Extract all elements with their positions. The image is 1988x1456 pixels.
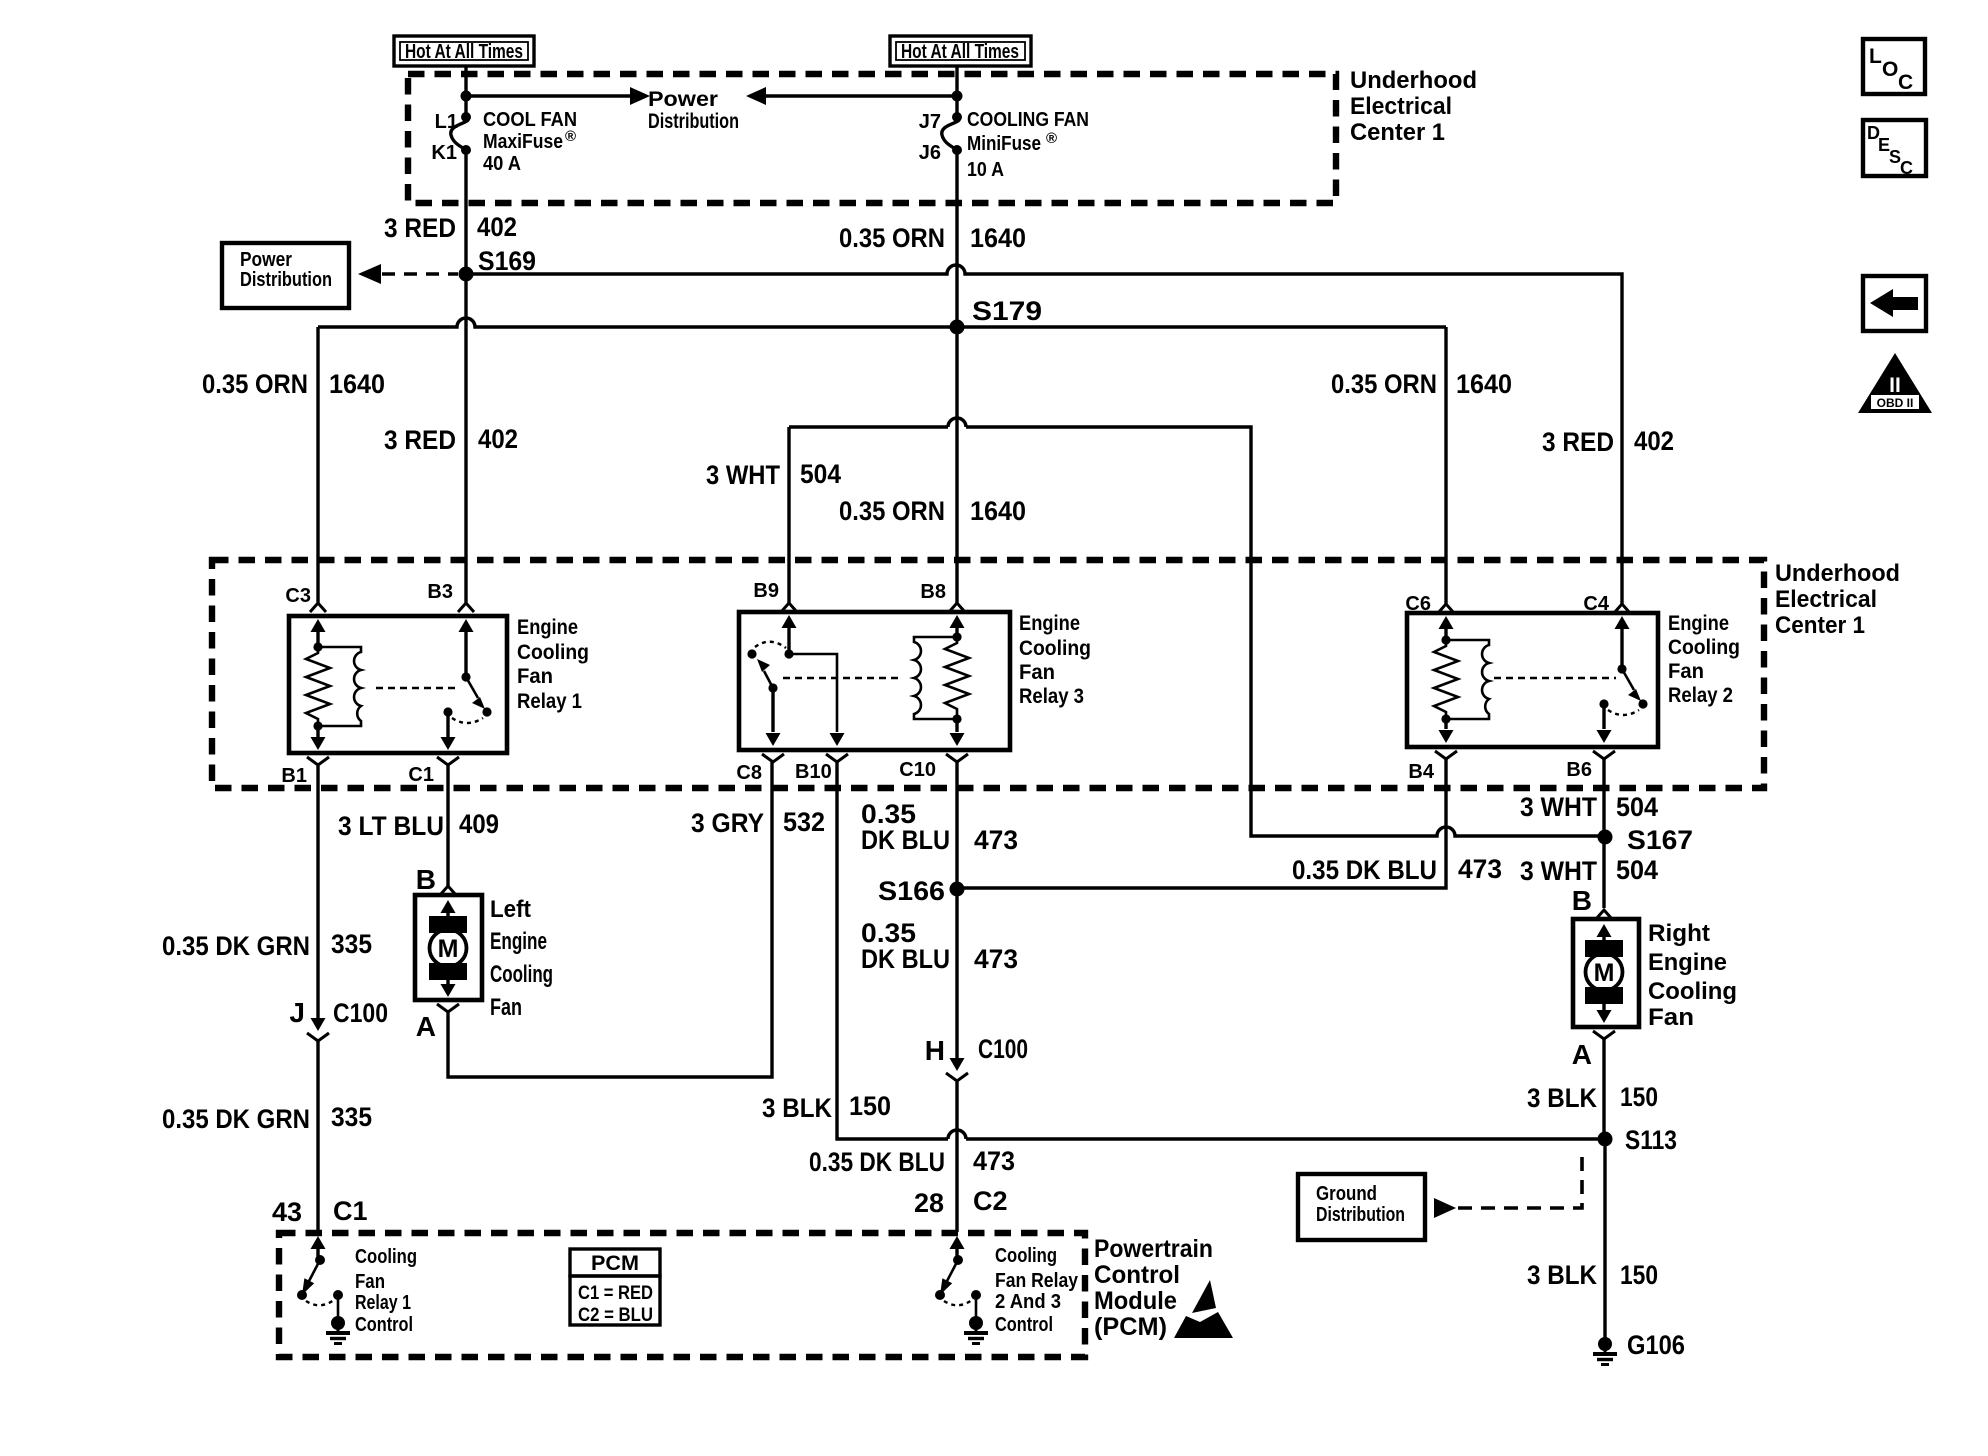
svg-text:Ground: Ground <box>1316 1183 1377 1205</box>
svg-text:K1: K1 <box>431 142 457 164</box>
svg-text:S166: S166 <box>878 876 945 906</box>
label: L1 / K1 <box>431 111 458 164</box>
Hot At All Times box 1 <box>394 36 534 66</box>
svg-text:Cooling: Cooling <box>490 961 553 988</box>
svg-text:473: 473 <box>974 825 1018 855</box>
svg-text:Control: Control <box>355 1314 413 1336</box>
label: 0.35 ORN 1640 (center) <box>839 496 1026 526</box>
left fan motor connector B <box>440 886 456 895</box>
back arrow box <box>1863 276 1926 331</box>
svg-text:®: ® <box>565 128 576 145</box>
svg-text:28: 28 <box>914 1188 944 1218</box>
svg-text:473: 473 <box>973 1146 1015 1176</box>
svg-text:J6: J6 <box>919 142 941 164</box>
svg-text:Cooling: Cooling <box>1668 636 1740 659</box>
label: Left Engine Cooling Fan <box>490 896 553 1021</box>
relay2 switch out arrow <box>1597 704 1612 743</box>
label: terminal B (right fan) <box>1572 885 1592 916</box>
PCM relay1 ground contact <box>333 1290 343 1317</box>
relay3 resistor <box>945 637 969 719</box>
svg-text:Control: Control <box>995 1314 1053 1336</box>
Powertrain Control Module dashed box <box>279 1233 1085 1357</box>
label: COOLING FAN MiniFuse 10 A <box>967 109 1089 181</box>
relay3 coil out arrow <box>950 719 965 746</box>
wire: dashed arrow Ground Distribution to S113 <box>1434 1152 1582 1218</box>
wire: 3 WHT 504 relay2 B6 to S167 to right fan B <box>1602 759 1605 908</box>
svg-text:3 GRY: 3 GRY <box>691 808 764 838</box>
wire: 0.35 DK GRN 335 C100 to PCM pin 43 <box>316 1041 319 1232</box>
relay2 resistor <box>1434 640 1458 719</box>
pin B8 connector <box>920 581 965 612</box>
svg-text:Cooling: Cooling <box>1648 978 1737 1005</box>
splice S166 <box>878 876 965 906</box>
svg-text:C6: C6 <box>1405 593 1431 615</box>
svg-text:C100: C100 <box>978 1034 1028 1064</box>
PCM relay1 driver contact <box>297 1290 307 1300</box>
svg-text:S113: S113 <box>1625 1125 1677 1155</box>
svg-text:S179: S179 <box>972 296 1042 326</box>
relay1 switch pin arrow <box>459 619 474 677</box>
svg-text:150: 150 <box>1620 1260 1658 1290</box>
pin B1 connector <box>281 757 329 787</box>
relay3 coil <box>914 637 957 719</box>
Underhood Electrical Center 1 dashed box (top) <box>408 74 1336 203</box>
svg-text:3 BLK: 3 BLK <box>762 1093 832 1123</box>
relay3 switch arm <box>757 659 778 693</box>
svg-text:532: 532 <box>783 807 825 837</box>
relay1 coil bottom node <box>313 721 322 730</box>
PCM relay23 driver contact <box>935 1290 945 1300</box>
svg-text:Powertrain: Powertrain <box>1094 1235 1213 1263</box>
svg-text:Cooling: Cooling <box>355 1246 417 1268</box>
relay2 actuator dashed link <box>1494 677 1616 679</box>
relay2 switch pivot <box>1617 664 1626 673</box>
svg-text:0.35 DK GRN: 0.35 DK GRN <box>162 1104 310 1134</box>
svg-text:0.35 ORN: 0.35 ORN <box>839 496 945 526</box>
pin C3 connector <box>285 585 326 612</box>
svg-text:473: 473 <box>974 944 1018 974</box>
svg-text:Hot At All Times: Hot At All Times <box>901 41 1019 63</box>
svg-text:B: B <box>416 864 436 895</box>
svg-text:1640: 1640 <box>329 369 385 399</box>
splice S113 <box>1598 1125 1678 1155</box>
svg-text:Underhood: Underhood <box>1350 67 1477 94</box>
label: Engine Cooling Fan Relay 3 <box>1019 612 1091 708</box>
wire: power distribution arrow right <box>466 87 650 105</box>
wire: S179 horizontal to relay1 C3 and relay2 C6 <box>318 318 1446 604</box>
relay3 B9 pin arrow <box>782 615 797 654</box>
label: pin 43 connector C1 <box>272 1196 368 1227</box>
svg-text:Underhood: Underhood <box>1775 560 1900 587</box>
svg-text:Engine: Engine <box>490 928 547 955</box>
svg-text:Left: Left <box>490 896 531 923</box>
svg-text:335: 335 <box>331 929 372 959</box>
label: 3 BLK 150 (ground leg) <box>1527 1260 1658 1290</box>
svg-text:B8: B8 <box>920 581 946 603</box>
relay2 coil pin arrow <box>1439 616 1454 640</box>
svg-text:402: 402 <box>1634 426 1674 456</box>
splice S169 <box>459 246 537 282</box>
svg-text:40 A: 40 A <box>483 153 521 175</box>
label: Right Engine Cooling Fan <box>1648 920 1737 1031</box>
wire: 3 RED 402 fuse1 to S169 to relay1 B3 <box>464 150 467 603</box>
relay1 resistor <box>306 647 330 726</box>
connector C100 pin J <box>289 997 388 1041</box>
svg-text:10 A: 10 A <box>967 159 1004 181</box>
wire: 3 BLK 150 relay3 B10 to S113 <box>837 762 1605 1139</box>
label: 0.35 DK BLU 473 (upper) <box>861 799 1018 855</box>
svg-text:C2 = BLU: C2 = BLU <box>578 1305 653 1326</box>
PCM relay1 travel arc <box>306 1300 334 1305</box>
label: 3 WHT 504 (above S167) <box>1520 792 1658 822</box>
PCM relay23 driver pivot <box>953 1255 963 1265</box>
svg-text:3 RED: 3 RED <box>384 213 456 243</box>
svg-text:Distribution: Distribution <box>648 110 739 133</box>
relay U1: Engine Cooling Fan Relay 1 <box>289 616 507 753</box>
relay3 B9 node <box>784 649 793 658</box>
pin B9 connector <box>753 580 797 612</box>
svg-text:1640: 1640 <box>970 496 1026 526</box>
svg-text:DK BLU: DK BLU <box>861 944 950 974</box>
label: 3 BLK 150 (right fan) <box>1527 1082 1658 1113</box>
PCM relay1 ground <box>326 1316 350 1344</box>
relay1 coil <box>318 647 361 726</box>
label: 0.35 DK BLU 473 (lower) <box>809 1146 1015 1177</box>
label: Cooling Fan Relay 2 And 3 Control <box>995 1245 1079 1336</box>
svg-text:1640: 1640 <box>1456 369 1512 399</box>
wire: 0.35 DK BLU 473 C100 to PCM pin 28 <box>955 1081 958 1232</box>
svg-text:B6: B6 <box>1566 759 1592 781</box>
relay2 coil <box>1446 640 1489 719</box>
label: Powertrain Control Module (PCM) <box>1094 1235 1213 1341</box>
label: 0.35 ORN 1640 (left) <box>202 369 385 399</box>
relay2 coil top node <box>1441 635 1450 644</box>
wire: S166 to relay2 B4 (0.35 DK BLU 473) <box>957 759 1446 888</box>
fuse F2: COOLING FAN MiniFuse 10A <box>942 112 962 155</box>
relay3 switch out arrow <box>766 688 781 746</box>
svg-text:C8: C8 <box>736 762 762 784</box>
PCM relay1 driver pivot <box>315 1255 325 1265</box>
ESD symbol <box>1174 1280 1233 1338</box>
svg-text:1640: 1640 <box>970 223 1026 253</box>
label: Cooling Fan Relay 1 Control <box>355 1246 417 1336</box>
right fan motor connector A <box>1572 1031 1615 1070</box>
svg-text:Right: Right <box>1648 920 1710 947</box>
relay2 switch arm <box>1622 669 1648 709</box>
relay1 coil out arrow <box>311 726 326 750</box>
wire: 3 LT BLU 409 relay1 C1 to left fan B <box>446 765 449 886</box>
svg-text:Cooling: Cooling <box>517 641 589 664</box>
svg-text:504: 504 <box>1616 792 1658 822</box>
wire: S169 to relay2 C4 (3 RED 402) <box>466 265 1622 604</box>
wire: power distribution arrow left (to fuse 2 node) <box>746 87 957 105</box>
PCM connector legend box <box>570 1249 660 1326</box>
svg-text:S169: S169 <box>478 246 536 276</box>
svg-text:3 WHT: 3 WHT <box>1520 792 1597 822</box>
OBD II symbol <box>1858 353 1932 413</box>
svg-text:O: O <box>1882 58 1898 81</box>
wire: 3 BLK 150 right fan A to S113 <box>1602 1039 1605 1139</box>
svg-text:0.35 ORN: 0.35 ORN <box>839 223 945 253</box>
label: Engine Cooling Fan Relay 1 <box>517 616 589 713</box>
svg-text:Distribution: Distribution <box>240 269 332 291</box>
svg-text:Fan: Fan <box>355 1271 385 1293</box>
svg-text:Control: Control <box>1094 1261 1180 1289</box>
svg-text:0.35 DK GRN: 0.35 DK GRN <box>162 931 310 961</box>
relay3 coil bottom node <box>952 714 961 723</box>
svg-text:B9: B9 <box>753 580 779 602</box>
svg-text:Fan: Fan <box>1019 661 1055 684</box>
node: power distribution tap 1 <box>461 91 472 102</box>
label: 3 WHT 504 (B9 drop) <box>706 459 841 490</box>
svg-text:0.35 DK BLU: 0.35 DK BLU <box>809 1147 945 1177</box>
Power Distribution box (left) <box>222 243 349 308</box>
relay1 switch out arrow <box>441 712 456 750</box>
label: terminal B (left fan) <box>416 864 436 895</box>
svg-text:Electrical: Electrical <box>1350 93 1452 120</box>
svg-text:C3: C3 <box>285 585 311 607</box>
pin B4 connector <box>1408 751 1457 783</box>
Ground Distribution box <box>1298 1174 1425 1240</box>
pin C8 connector <box>736 754 784 784</box>
svg-text:Cooling: Cooling <box>995 1245 1057 1267</box>
svg-text:L1: L1 <box>435 111 458 133</box>
pin B6 connector <box>1566 751 1615 781</box>
svg-text:Relay 1: Relay 1 <box>355 1292 411 1314</box>
PCM relay23 travel arc <box>944 1300 972 1305</box>
svg-text:Engine: Engine <box>1019 612 1080 635</box>
svg-text:Engine: Engine <box>1648 949 1727 976</box>
svg-text:409: 409 <box>459 809 499 839</box>
svg-text:J: J <box>289 997 305 1028</box>
right fan motor connector B <box>1596 910 1612 919</box>
svg-text:C: C <box>1900 158 1913 178</box>
svg-text:M: M <box>1594 959 1615 987</box>
PCM relay23 ground contact <box>971 1290 981 1317</box>
label: 3 RED 402 (left drop) <box>384 424 518 455</box>
svg-text:B3: B3 <box>427 581 453 603</box>
svg-text:A: A <box>416 1011 436 1042</box>
relay3 switch open contact <box>747 649 756 658</box>
svg-text:3 LT BLU: 3 LT BLU <box>338 811 444 841</box>
svg-text:Relay 3: Relay 3 <box>1019 685 1084 708</box>
relay2 contact travel arc <box>1608 710 1639 715</box>
wire: 0.35 ORN 1640 fuse2 down to relay3 B8 <box>955 150 958 603</box>
relay3 B8 pin arrow <box>950 615 965 637</box>
svg-text:B: B <box>1572 885 1592 916</box>
svg-text:473: 473 <box>1458 854 1502 884</box>
splice S179 <box>950 296 1043 335</box>
svg-text:504: 504 <box>800 459 841 489</box>
label: 3 BLK 150 (B10) <box>762 1091 891 1123</box>
relay1 switch arm <box>466 677 492 717</box>
relay3 actuator dashed link <box>783 677 900 679</box>
svg-text:G106: G106 <box>1627 1330 1685 1360</box>
svg-text:L: L <box>1869 45 1882 68</box>
DESC reference box <box>1863 120 1926 178</box>
svg-text:PCM: PCM <box>591 1252 639 1275</box>
wire: dashed arrow S169 to Power Distribution box <box>358 264 458 284</box>
label: 3 WHT 504 (below S167) <box>1520 855 1658 886</box>
left fan motor connector A <box>416 1004 459 1042</box>
svg-text:402: 402 <box>477 212 517 242</box>
svg-text:B4: B4 <box>1408 761 1434 783</box>
svg-text:C10: C10 <box>899 759 936 781</box>
svg-text:2 And 3: 2 And 3 <box>995 1291 1061 1313</box>
wire: fuse 2 feed from Hot At All Times <box>955 66 958 117</box>
label: Engine Cooling Fan Relay 2 <box>1668 612 1740 707</box>
relay2 switch fixed contact <box>1599 699 1608 708</box>
svg-text:Electrical: Electrical <box>1775 586 1877 613</box>
svg-text:Fan: Fan <box>1668 660 1704 683</box>
wire: left fan A to relay3 C8 (3 GRY 532) <box>448 762 772 1077</box>
label: Underhood Electrical Center 1 (middle) <box>1775 560 1900 639</box>
svg-text:Relay 2: Relay 2 <box>1668 684 1733 707</box>
pin C10 connector <box>899 754 968 781</box>
wire: 3 WHT 504 S167 riser to relay3 B9 <box>789 418 1605 836</box>
node: power distribution tap 2 <box>952 91 963 102</box>
wire: 0.35 DK GRN 335 relay1 B1 to PCM <box>311 765 326 1031</box>
svg-text:C4: C4 <box>1583 593 1609 615</box>
splice S167 <box>1598 825 1694 855</box>
relay2 coil out arrow <box>1439 719 1454 743</box>
svg-text:B10: B10 <box>795 761 832 783</box>
LOC reference box <box>1863 39 1925 94</box>
svg-text:C1: C1 <box>333 1196 368 1226</box>
svg-text:MaxiFuse: MaxiFuse <box>483 131 563 153</box>
label: 0.35 DK BLU 473 (below S166) <box>861 918 1018 974</box>
svg-text:150: 150 <box>849 1091 891 1121</box>
svg-text:43: 43 <box>272 1197 302 1227</box>
label: 3 GRY 532 <box>691 807 825 838</box>
svg-text:3 RED: 3 RED <box>1542 427 1614 457</box>
svg-text:Center 1: Center 1 <box>1350 119 1445 146</box>
svg-text:Fan: Fan <box>517 665 553 688</box>
motor M1: Left Engine Cooling Fan <box>415 895 482 1000</box>
relay2 switch pin arrow <box>1615 616 1630 669</box>
svg-text:Relay 1: Relay 1 <box>517 690 582 713</box>
relay1 coil top node <box>313 642 322 651</box>
svg-text:0.35 ORN: 0.35 ORN <box>1331 369 1437 399</box>
svg-text:0.35 ORN: 0.35 ORN <box>202 369 308 399</box>
svg-text:Engine: Engine <box>1668 612 1729 635</box>
label: 0.35 DK GRN 335 (upper) <box>162 929 372 961</box>
svg-text:504: 504 <box>1616 855 1658 885</box>
wire: fuse 1 feed from Hot At All Times <box>464 66 467 117</box>
pin C4 connector <box>1583 593 1630 615</box>
svg-text:Power: Power <box>648 88 718 111</box>
relay1 coil branch pin arrow <box>311 619 326 647</box>
svg-text:3 BLK: 3 BLK <box>1527 1260 1597 1290</box>
label: 0.35 DK GRN 335 (lower) <box>162 1102 372 1134</box>
svg-text:II: II <box>1889 374 1901 397</box>
svg-text:OBD II: OBD II <box>1877 396 1914 410</box>
relay1 contact travel arc <box>452 718 483 723</box>
PCM pin 28 entry arrow <box>950 1236 965 1260</box>
label: J7 / J6 <box>919 111 941 164</box>
svg-text:402: 402 <box>478 424 518 454</box>
label: Power Distribution (top) <box>648 88 739 133</box>
svg-text:J7: J7 <box>919 111 941 133</box>
svg-text:0.35 DK BLU: 0.35 DK BLU <box>1292 855 1437 885</box>
svg-text:Cooling: Cooling <box>1019 637 1091 660</box>
relay U2: Engine Cooling Fan Relay 2 <box>1407 613 1658 747</box>
svg-text:Distribution: Distribution <box>1316 1204 1405 1226</box>
wire: 3 BLK 150 S113 to G106 <box>1603 1139 1606 1338</box>
svg-text:C1 = RED: C1 = RED <box>578 1283 653 1304</box>
connector C100 pin H <box>925 1034 1028 1081</box>
svg-text:Fan: Fan <box>490 994 522 1021</box>
svg-text:COOL FAN: COOL FAN <box>483 109 577 131</box>
svg-text:Engine: Engine <box>517 616 578 639</box>
pin B3 connector <box>427 581 474 612</box>
label: 3 LT BLU 409 <box>338 809 499 841</box>
label: 0.35 DK BLU 473 (B4) <box>1292 854 1502 885</box>
PCM relay1 driver arm <box>302 1260 320 1295</box>
ground G106 <box>1593 1330 1685 1365</box>
label: 0.35 ORN 1640 (right) <box>1331 369 1512 399</box>
fuse F1: COOL FAN MaxiFuse 40A <box>451 112 471 155</box>
svg-text:M: M <box>438 935 459 963</box>
PCM relay23 driver arm <box>940 1260 958 1295</box>
label: COOL FAN MaxiFuse 40 A <box>483 109 577 175</box>
PCM relay23 ground <box>964 1316 988 1344</box>
relay3 coil top node <box>952 632 961 641</box>
Hot At All Times box 2 <box>890 36 1031 66</box>
relay2 coil bottom node <box>1441 714 1450 723</box>
svg-text:3 WHT: 3 WHT <box>1520 856 1597 886</box>
motor M2: Right Engine Cooling Fan <box>1573 919 1639 1027</box>
svg-text:COOLING FAN: COOLING FAN <box>967 109 1089 131</box>
svg-text:DK BLU: DK BLU <box>861 825 950 855</box>
label: pin 28 connector C2 <box>914 1186 1008 1218</box>
relay U3: Engine Cooling Fan Relay 3 <box>739 612 1010 750</box>
relay1 actuator dashed link <box>376 687 458 689</box>
Underhood Electrical Center 1 dashed box (middle) <box>212 560 1764 788</box>
label: 0.35 ORN 1640 (upper) <box>839 223 1026 253</box>
svg-text:3 RED: 3 RED <box>384 425 456 455</box>
svg-text:Fan Relay: Fan Relay <box>995 1270 1079 1292</box>
svg-text:MiniFuse: MiniFuse <box>967 133 1041 155</box>
relay1 switch fixed contact <box>443 707 452 716</box>
svg-text:C: C <box>1898 71 1913 94</box>
svg-text:Module: Module <box>1094 1287 1177 1315</box>
svg-text:(PCM): (PCM) <box>1094 1313 1167 1341</box>
svg-text:S167: S167 <box>1627 825 1693 855</box>
wire: 0.35 DK BLU 473 relay3 C10 down <box>950 762 965 1071</box>
svg-text:A: A <box>1572 1039 1592 1070</box>
svg-text:H: H <box>925 1035 945 1066</box>
relay3 contact travel arc <box>755 642 786 648</box>
label: 3 RED 402 (upper) <box>384 212 517 243</box>
svg-text:3 WHT: 3 WHT <box>706 460 780 490</box>
pin B10 connector <box>795 754 848 783</box>
svg-text:C1: C1 <box>408 764 434 786</box>
svg-text:C100: C100 <box>333 998 388 1028</box>
svg-text:150: 150 <box>1620 1082 1658 1112</box>
svg-text:C2: C2 <box>973 1186 1008 1216</box>
svg-text:Hot At All Times: Hot At All Times <box>405 41 523 63</box>
PCM pin 43 entry arrow <box>311 1236 326 1260</box>
label: 3 RED 402 (right) <box>1542 426 1674 457</box>
svg-text:Power: Power <box>240 249 292 271</box>
svg-text:B1: B1 <box>281 765 307 787</box>
pin C6 connector <box>1405 593 1454 615</box>
svg-text:Fan: Fan <box>1648 1004 1694 1031</box>
svg-text:Center 1: Center 1 <box>1775 612 1865 639</box>
pin C1 connector <box>408 757 459 786</box>
svg-text:®: ® <box>1046 130 1057 147</box>
